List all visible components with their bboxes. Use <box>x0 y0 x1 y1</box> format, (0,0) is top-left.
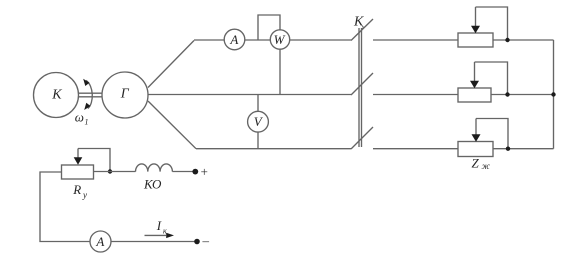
generator G (machine circle) <box>102 72 148 118</box>
field rheostat wiper loop <box>78 149 110 172</box>
wire: wattmeter voltage lead down to middle phase <box>279 49 281 94</box>
load rheostat 3 wiper loop <box>476 119 508 149</box>
wire: rheostat left down to bottom <box>40 172 90 242</box>
switch blade top <box>351 19 373 41</box>
wire: bottom diagonal from generator <box>148 101 196 149</box>
load rheostat 1 wiper arrow <box>475 7 477 28</box>
plus terminal <box>192 169 198 175</box>
junction dot bus row2 <box>551 92 555 96</box>
load rheostat 3 (body) <box>458 142 493 157</box>
svg-text:у: у <box>82 190 87 200</box>
svg-text:Z: Z <box>472 156 480 171</box>
wire: switch to load row1 <box>373 39 458 41</box>
wire: A to W <box>245 39 270 41</box>
svg-text:ω: ω <box>75 110 84 125</box>
current arrow I_k <box>145 234 167 236</box>
svg-text:Г: Г <box>120 87 130 102</box>
shaft coupling (double line) <box>79 92 103 94</box>
svg-text:A: A <box>95 234 104 249</box>
wire: load3 to bus <box>493 148 554 150</box>
wattmeter voltage-coil loop <box>258 15 280 40</box>
switch blade middle <box>351 73 373 95</box>
wire: top diagonal from generator <box>148 41 194 88</box>
wire: load2 to bus <box>491 94 554 96</box>
svg-text:+: + <box>200 164 209 179</box>
voltmeter branch wire (lower) <box>257 132 259 149</box>
rotation arrow over shaft <box>86 81 92 109</box>
svg-text:A: A <box>229 32 238 47</box>
ammeter A1 <box>224 29 245 50</box>
junction dot load2 tap <box>505 92 509 96</box>
svg-text:I: I <box>156 218 162 233</box>
junction dot load1 tap <box>505 38 509 42</box>
svg-text:V: V <box>254 114 264 129</box>
wattmeter W <box>270 30 289 49</box>
load rheostat 2 wiper arrow <box>474 62 476 83</box>
field rheostat wiper arrow <box>77 149 79 160</box>
wire: rheostat to coil <box>94 171 136 173</box>
load rheostat 2 wiper loop <box>475 62 508 95</box>
wire: switch to load row3 <box>373 148 458 150</box>
load rheostat 2 (body) <box>458 88 491 102</box>
wire: ammeter to minus terminal <box>111 241 195 243</box>
svg-text:1: 1 <box>85 118 89 127</box>
wire: W to switch (top phase) <box>290 39 351 41</box>
junction dot load3 tap <box>506 147 510 151</box>
svg-text:–: – <box>202 233 210 248</box>
motor K (machine circle) <box>34 73 79 118</box>
svg-text:R: R <box>72 182 81 197</box>
svg-text:ж: ж <box>482 161 491 171</box>
wire: middle phase from generator <box>148 94 351 96</box>
switch K1 bar (double vertical) <box>358 28 360 147</box>
load rheostat 1 (body) <box>458 33 493 47</box>
field ammeter A2 <box>90 231 111 252</box>
wire: top line to ammeter <box>194 39 224 41</box>
minus terminal <box>194 239 200 245</box>
wire: bottom phase <box>196 148 351 150</box>
svg-text:,: , <box>362 19 364 29</box>
junction dot field tap <box>108 169 112 173</box>
field winding KO (coil) <box>136 164 173 172</box>
wire: load1 to bus <box>493 39 554 41</box>
svg-text:к: к <box>163 227 167 236</box>
svg-text:W: W <box>274 32 286 47</box>
wire: switch to load row2 <box>373 94 458 96</box>
field rheostat Ru (body) <box>62 165 94 179</box>
switch blade bottom <box>351 127 373 149</box>
right bus (vertical) <box>553 40 555 149</box>
svg-text:К: К <box>51 88 62 103</box>
svg-text:КО: КО <box>143 177 162 192</box>
voltmeter V <box>248 111 269 132</box>
voltmeter branch wire (upper) <box>257 95 259 112</box>
load rheostat 1 wiper loop <box>476 7 508 40</box>
wire: coil to plus terminal <box>172 171 193 173</box>
load rheostat 3 wiper arrow <box>475 119 477 137</box>
